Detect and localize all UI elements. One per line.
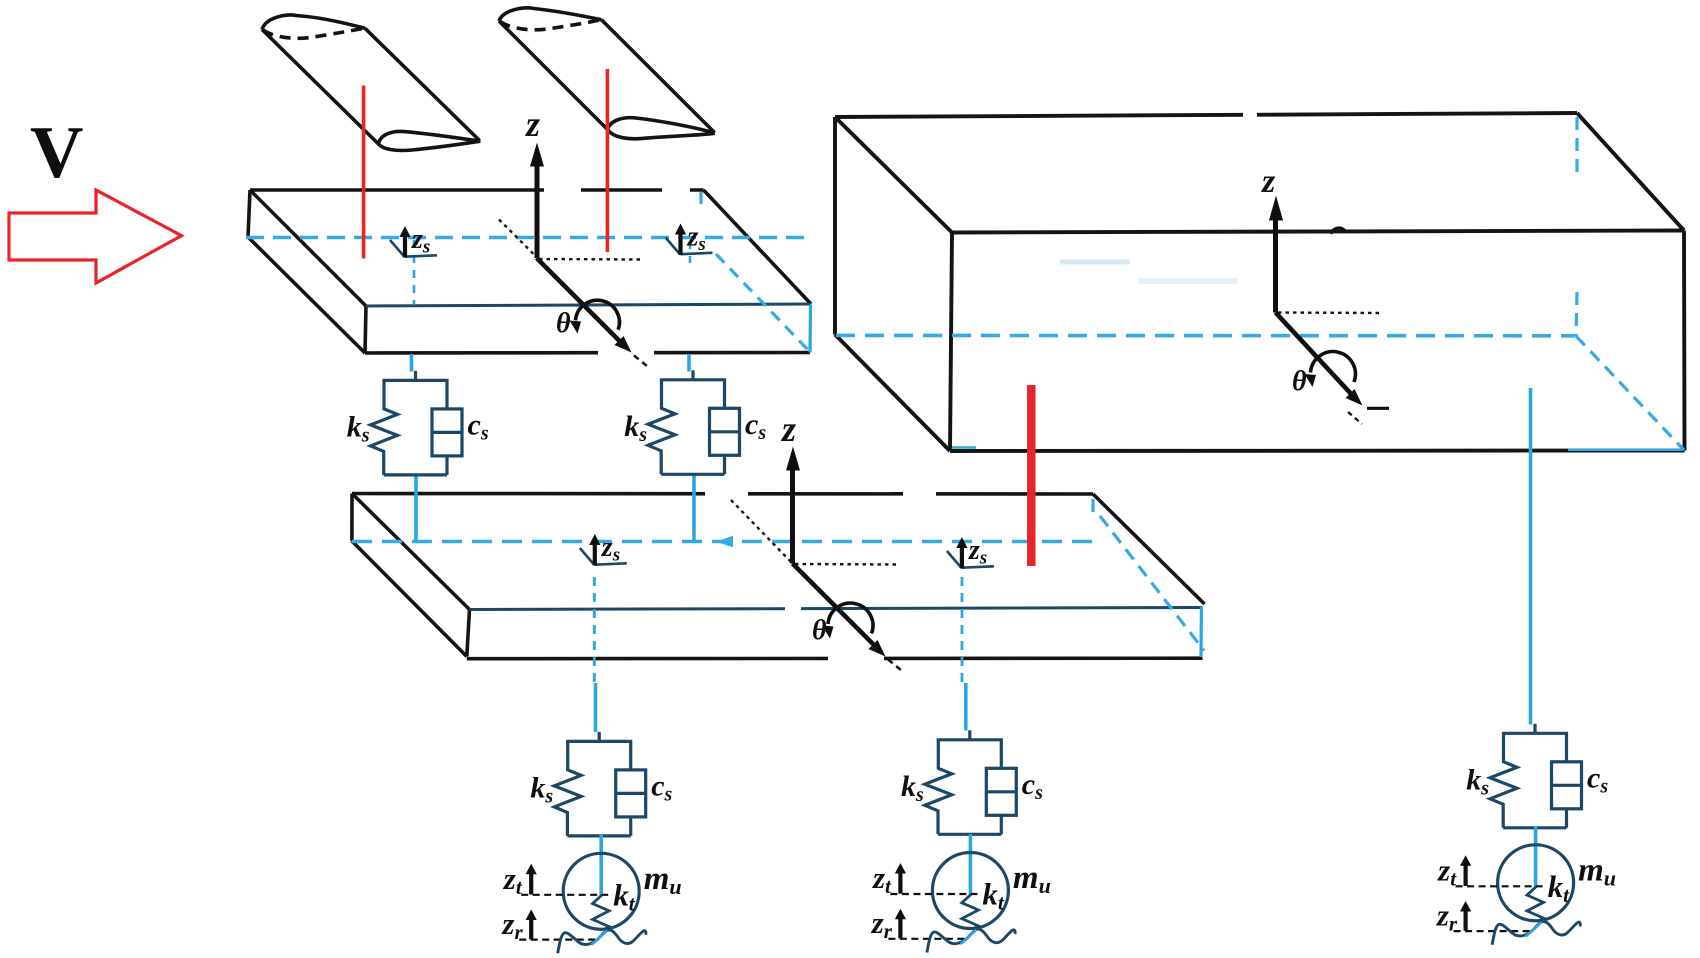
plate M3 theta rotation arc: [812, 603, 873, 646]
box M2 body axis: z arrow: [1261, 163, 1283, 313]
plate M1 pitch axis arrow: [537, 258, 647, 366]
plate M1 theta rotation arc: [556, 300, 619, 339]
scan blemish on box M2 front-top edge: [1331, 228, 1345, 234]
blue connector: U2 bottom to plate M3: [692, 475, 696, 541]
suspension unit U5 (k_s, c_s): [1466, 724, 1608, 828]
white-out gap on plate M3 top-front edge: [785, 601, 801, 613]
blue connector: plate M3 to U4: [964, 683, 968, 731]
plate M1 hidden right edge (dashed blue): [701, 192, 809, 351]
box M2 blue line above bottom edge right: [1568, 449, 1683, 451]
white scan gaps on plate M1 top edge: [544, 184, 581, 195]
front sprung mass plate M1: [248, 190, 811, 353]
airfoil wing 2: [499, 8, 715, 139]
suspension unit U1 (k_s, c_s): [347, 371, 489, 475]
box M2 hidden rear-bottom centerline (dashed blue): [836, 334, 1575, 338]
white scan gap on box M2 top edge: [1243, 107, 1257, 118]
rear sprung mass box M2: [835, 113, 1685, 451]
hidden suspension attachment lines through plate M1 (dashed blue): [414, 240, 690, 304]
plate M3 centerline left arrowhead (blue): [716, 536, 733, 548]
plate M3 hidden rear-bottom centerline (dashed blue): [352, 540, 1093, 544]
plate M1 axis: dotted horizontal reference: [539, 258, 642, 261]
box M2 pitch axis arrow: [1276, 313, 1390, 425]
box M2 hidden rear-right edge (dashed blue): [1576, 117, 1577, 336]
plate M1 body axis: z arrow: [524, 104, 544, 258]
thick red strut on box M2: [1027, 385, 1036, 566]
blue connector: U1 top stub: [410, 354, 414, 372]
velocity arrow: [9, 190, 182, 283]
plate M3 pitch axis arrow: [793, 564, 902, 671]
wheel W2 (m_u, k_t, z_t, z_r): [871, 834, 1051, 953]
svg-text:V: V: [30, 112, 83, 194]
white scan gaps on plate M3 top edge: [705, 487, 748, 499]
wing strut red line 1: [362, 86, 366, 259]
white-out gap on plate M3 bottom edge: [828, 652, 884, 664]
plate M1 front-right edge (blue): [808, 305, 812, 353]
box M2 theta rotation arc: [1292, 352, 1355, 397]
blue connector: U2 top stub: [687, 354, 691, 372]
plate M3 body axis: z arrow: [780, 409, 800, 564]
suspension unit U4 (k_s, c_s): [901, 730, 1043, 834]
hidden connector through plate M3 at U4 (dashed blue): [961, 577, 964, 683]
wing strut red line 2: [606, 69, 610, 252]
blue connector: U1 bottom to plate M3: [414, 475, 418, 541]
wheel W3 (m_u, k_t, z_t, z_r): [1436, 826, 1616, 945]
blue connector: box M2 to U5 (long): [1529, 388, 1533, 725]
svg-text:θ: θ: [556, 308, 571, 339]
white-out gap on plate M1 bottom edge: [598, 347, 654, 359]
svg-text:θ: θ: [1292, 366, 1307, 397]
plate M3 axis: dotted extension up-left: [731, 500, 791, 562]
box M2 small blue tick at front-bottom-left corner: [952, 446, 976, 449]
wheel W1 (m_u, k_t, z_t, z_r): [501, 835, 681, 954]
svg-text:z: z: [1261, 163, 1276, 200]
svg-text:θ: θ: [812, 615, 827, 646]
plate M1 hidden rear-bottom centerline (dashed blue): [246, 236, 806, 240]
svg-text:z: z: [524, 104, 540, 144]
airfoil wing 1: [262, 15, 480, 151]
rear plate M3 (lower sprung mass): [352, 494, 1205, 659]
suspension unit U2 (k_s, c_s): [624, 370, 766, 474]
faint scan smudges inside box M2: [1060, 260, 1130, 265]
plate M3 hidden right edge (dashed blue): [1093, 499, 1204, 651]
plate M3 axis: dotted horizontal reference: [795, 563, 896, 566]
plate M3 front-right edge (blue): [1199, 607, 1203, 657]
suspension unit U3 (k_s, c_s): [530, 732, 672, 836]
plate M1 axis: dotted extension up-left: [499, 220, 535, 256]
blue connector: plate M3 to U3: [594, 683, 598, 732]
box M2 hidden bottom-right edge (dashed blue): [1576, 336, 1684, 450]
hidden connector through plate M3 at U3 (dashed blue): [593, 577, 596, 683]
z_s marker 1 (plate M1 left): [390, 224, 437, 258]
z_s marker 3 (plate M3 left): [580, 532, 627, 566]
box M2 axis: dotted horizontal reference: [1278, 311, 1380, 314]
svg-text:z: z: [780, 409, 796, 449]
z_s marker 2 (plate M1 right): [666, 222, 713, 256]
z_s marker 4 (plate M3 right): [947, 535, 994, 569]
